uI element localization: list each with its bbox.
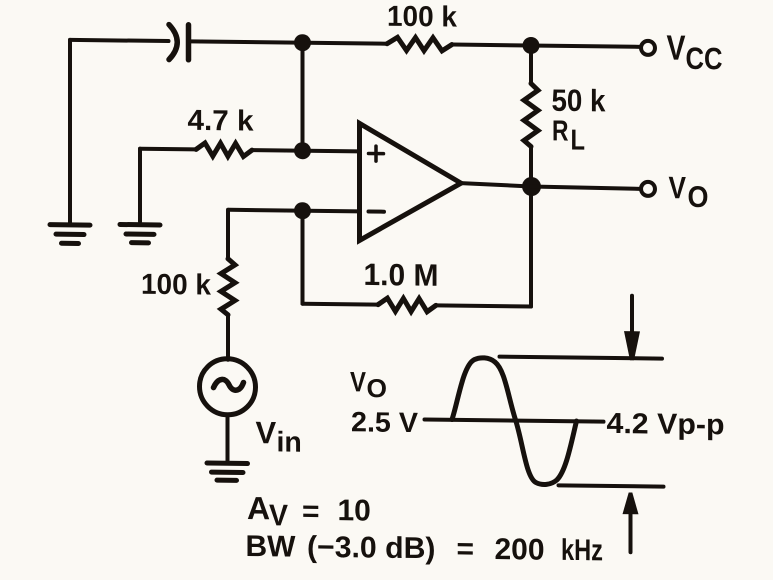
wire 4.7k left corner down [138,149,142,222]
resistor R3 100 k (vertical input) [221,259,235,315]
svg-text:V: V [667,28,687,67]
label VO (terminal) [669,170,709,214]
ground G1 (far left) [50,225,90,244]
svg-text:100 k: 100 k [387,1,458,34]
svg-text:100 k: 100 k [141,269,212,302]
svg-text:V: V [256,415,277,450]
wire node B to RL [529,45,533,83]
ground G2 (4.7k) [120,224,160,242]
svg-text:O: O [688,181,709,214]
wire noninverting input row [140,147,196,152]
svg-text:BW: BW [246,530,297,564]
capacitor C1 straight plate [186,25,192,60]
svg-text:O: O [367,373,388,403]
svg-text:4.7 k: 4.7 k [187,105,254,138]
wire feedback bottom left [303,302,379,307]
wire R1 to Vcc terminal [452,45,640,47]
source sine symbol [214,379,244,390]
svg-text:in: in [277,426,302,458]
wire feedback right vertical [529,186,533,306]
arrow bottom (up) head [623,492,639,514]
wire feedback bottom right [436,305,531,306]
node B junction dot [523,37,540,54]
svg-text:CC: CC [686,41,723,76]
node output junction dot [522,177,541,196]
resistor R4 1.0 M [378,298,436,312]
arrow top (down) shaft [630,296,634,335]
label VCC [667,28,723,76]
wire top horizontal left segment [70,40,169,41]
svg-text:R: R [552,115,569,147]
resistor R2 4.7 k [196,143,252,157]
ground G3 (Vin) [207,463,248,480]
svg-text:V: V [350,366,366,397]
arrow top (down) head [624,331,640,360]
svg-text:kHz: kHz [561,534,603,568]
wire R2 to op-amp plus input [252,150,360,151]
wire op-amp output [461,183,531,186]
terminal Vo circle [641,182,655,196]
resistor R1 100 k (top feedback) [387,37,452,51]
svg-text:50 k: 50 k [552,83,607,119]
resistor RL 50 k (vertical) [524,83,538,146]
label AV = 10 [247,490,371,534]
svg-text:V: V [269,499,288,532]
label RL [552,115,585,156]
wire source to ground G3 [226,415,230,461]
arrow bottom (up) shaft [629,514,633,552]
op-amp U1 triangle [360,123,462,241]
svg-text:4.2 Vp-p: 4.2 Vp-p [607,408,725,441]
node inverting input dot [294,202,311,219]
waveform sine [452,357,577,484]
svg-text:L: L [571,124,586,156]
wire RL to output node [529,146,533,186]
terminal Vcc circle [641,41,655,55]
label VO (waveform) [350,366,387,403]
capacitor C1 curved plate [169,25,177,60]
op-amp minus sign [369,210,385,214]
node A junction dot [294,34,311,51]
wire feedback left vertical [301,211,305,304]
svg-text:V: V [669,170,687,205]
svg-text:1.0 M: 1.0 M [364,257,439,293]
wire capacitor to node A [191,41,388,43]
svg-text:2.5 V: 2.5 V [351,406,418,438]
node noninverting input dot [294,142,311,159]
wire output to Vo terminal [531,186,640,188]
wire inverting input row [229,210,360,212]
label BW (-3.0 dB) = 200 kHz [246,530,604,567]
label Vin [256,415,302,459]
source Vin circle [200,358,256,415]
svg-text:(−3.0 dB): (−3.0 dB) [307,531,436,566]
waveform top level line [500,357,663,359]
svg-text:10: 10 [338,494,371,527]
op-amp plus sign [369,146,384,161]
waveform center line [425,419,604,421]
waveform bottom level line [559,485,664,486]
wire inverting corner down to R3 [226,210,230,259]
svg-text:=: = [457,533,475,566]
svg-text:200: 200 [495,533,545,567]
svg-text:A: A [247,490,270,526]
wire R3 to source [226,315,230,360]
wire node A down to noninverting input [301,43,305,151]
svg-text:=: = [302,495,320,528]
wire top-left vertical [68,40,72,223]
